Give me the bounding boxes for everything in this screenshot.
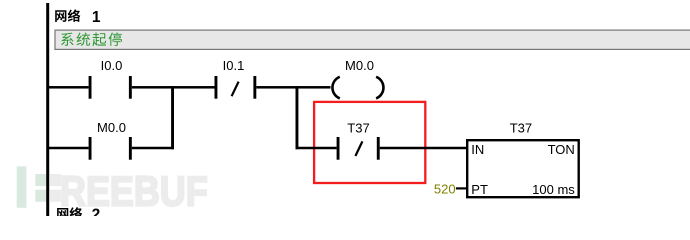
left power rail [46,3,49,216]
branch wire down to T37 contact [296,86,299,149]
svg-text:520: 520 [434,181,456,196]
svg-text:I0.0: I0.0 [101,58,123,73]
svg-text:TON: TON [548,142,575,157]
svg-text:IN: IN [471,142,484,157]
svg-text:M0.0: M0.0 [345,58,374,73]
network comment box [55,30,690,49]
wire rail to I0.0 [47,86,89,89]
coil M0.0 [332,77,383,99]
wire T37 contact to timer block [380,147,467,150]
contact M0.0 [89,137,132,160]
red highlight box around T37 contact [314,102,425,183]
wire I0.1 to coil M0.0 [256,86,330,89]
wire rail to M0.0 contact [47,147,89,150]
svg-text:100 ms: 100 ms [532,182,575,197]
svg-text:1: 1 [92,9,101,26]
svg-text:REEBUF: REEBUF [60,169,208,215]
FreeBuf watermark logo icon [17,166,62,208]
contact I0.0 [89,76,132,99]
timer block T37 TON box [467,140,579,197]
contact T37 (NC) [337,137,380,160]
svg-text:I0.1: I0.1 [223,58,245,73]
svg-text:T37: T37 [510,120,532,135]
network 1 title 网络 1 [55,9,101,26]
svg-text:T37: T37 [347,120,369,135]
branch wire down to rung 2 [171,86,174,149]
comment text 系统起停 [61,32,122,46]
wire branch to T37 contact [296,147,337,150]
wire I0.0 to I0.1 [132,86,215,89]
wire M0.0 contact to branch [132,147,174,150]
network 2 title 网络 2 [57,207,100,224]
svg-text:PT: PT [471,182,488,197]
svg-text:M0.0: M0.0 [97,120,126,135]
contact I0.1 (NC) [215,76,257,99]
svg-text:2: 2 [92,207,101,217]
PT input stub wire [456,187,467,189]
